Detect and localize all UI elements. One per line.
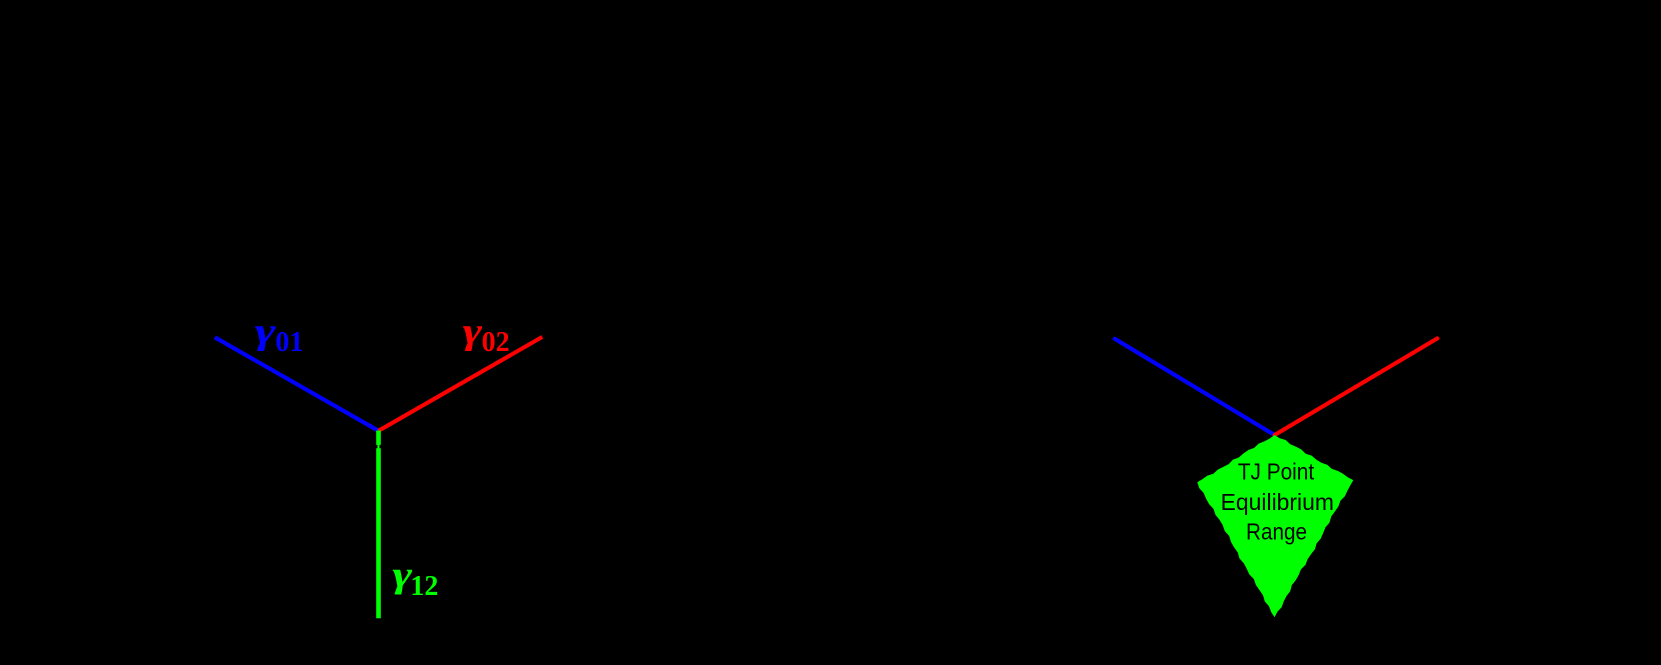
wire gamma02 boundary line (left diagram, red): [379, 337, 543, 431]
svg-text:Equilibrium: Equilibrium: [1221, 489, 1334, 515]
wire gamma12 boundary line (left diagram, green): [376, 431, 381, 619]
svg-text:Range: Range: [1246, 519, 1307, 545]
svg-text:02: 02: [482, 327, 510, 358]
svg-text:γ: γ: [255, 311, 277, 352]
svg-text:TJ Point: TJ Point: [1238, 459, 1315, 485]
wire gamma01 boundary line (left diagram, blue): [215, 337, 379, 431]
svg-text:γ: γ: [463, 311, 483, 352]
svg-text:12: 12: [410, 571, 438, 602]
node TJ Point Equilibrium Range kite: [1197, 435, 1353, 617]
wire gamma01 boundary line (right diagram, blue): [1115, 339, 1275, 435]
svg-text:01: 01: [275, 327, 303, 358]
label TJ Point Equilibrium Range: [1221, 459, 1334, 545]
wire gamma02 boundary line (right diagram, red): [1275, 338, 1438, 435]
node TJ notch marks on green line: [375, 445, 377, 448]
